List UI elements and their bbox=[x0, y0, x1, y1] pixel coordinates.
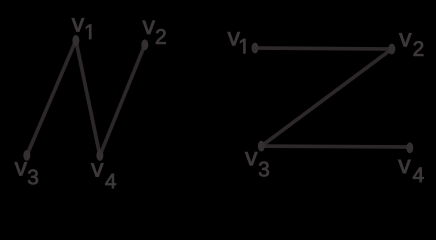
wire edge v2-v3 bbox=[261, 49, 392, 146]
node v4 (right graph) bbox=[406, 142, 413, 153]
wire edge v4-v2 bbox=[100, 45, 145, 156]
label v1 (left graph) bbox=[72, 18, 91, 39]
label v3 (right graph) bbox=[245, 152, 269, 176]
node v1 (right graph) bbox=[252, 43, 259, 54]
node v1 (left graph) bbox=[72, 35, 79, 46]
wire edge v3-v4 bbox=[261, 144, 410, 149]
label v4 (right graph) bbox=[398, 160, 423, 182]
node v3 (left graph) bbox=[23, 150, 30, 161]
label v2 (left graph) bbox=[143, 21, 166, 44]
node v2 (right graph) bbox=[388, 44, 395, 55]
label v2 (right graph) bbox=[399, 33, 423, 56]
wire edge v1-v2 bbox=[255, 48, 392, 49]
node v2 (left graph) bbox=[141, 39, 148, 50]
wire edge v3-v1 bbox=[27, 40, 76, 155]
node v4 (left graph) bbox=[96, 150, 103, 161]
wire edge v1-v4 bbox=[76, 40, 100, 155]
label v1 (right graph) bbox=[228, 32, 246, 53]
label v3 (left graph) bbox=[15, 162, 38, 184]
node v3 (right graph) bbox=[258, 141, 265, 152]
label v4 (left graph) bbox=[91, 163, 116, 188]
